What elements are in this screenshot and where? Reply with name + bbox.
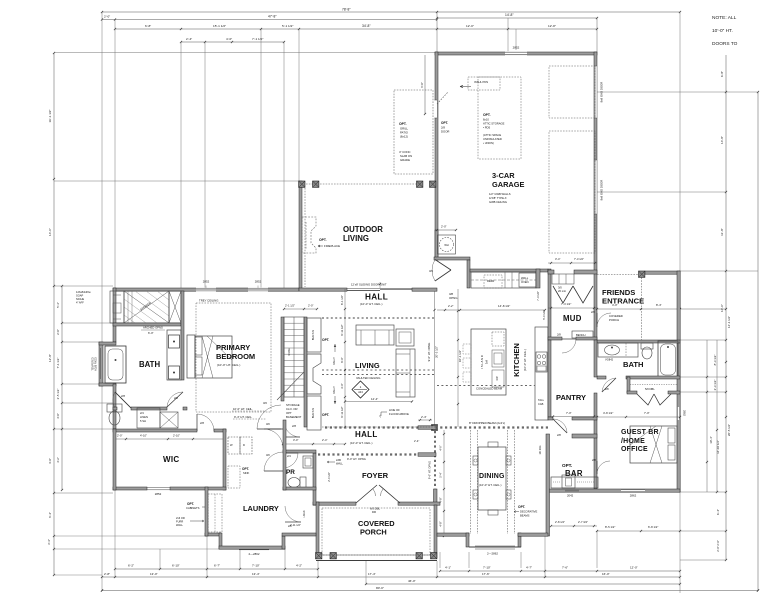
guest bottom dims: [596, 525, 681, 532]
range counter: [535, 327, 548, 420]
svg-text:20 min: 20 min: [558, 289, 567, 293]
pr toilet: [288, 477, 306, 488]
mud dim: [542, 302, 597, 320]
concealed beam: [437, 386, 535, 391]
svg-text:(8x12): (8x12): [400, 135, 408, 139]
svg-text:9’-0” HT. OPNG: 9’-0” HT. OPNG: [427, 343, 431, 362]
right horizontal connectors: [597, 92, 758, 560]
dining south wall w: [437, 533, 469, 536]
svg-text:DECORATIVE: DECORATIVE: [520, 510, 537, 514]
svg-text:8’-3 1/2”: 8’-3 1/2”: [713, 355, 717, 366]
svg-text:10’-0” HT.: 10’-0” HT.: [712, 28, 733, 34]
bath door 2: [167, 392, 183, 407]
svg-text:2’-2”: 2’-2”: [448, 304, 453, 308]
dining bay: [466, 533, 521, 556]
foyer south wall e: [398, 502, 440, 505]
svg-text:CABINETS: CABINETS: [186, 506, 200, 510]
soap niche note: [76, 290, 91, 305]
svg-text:17’-6”: 17’-6”: [482, 572, 490, 576]
garage room label: [489, 171, 525, 204]
svg-text:2’-8”: 2’-8”: [104, 572, 110, 576]
svg-text:4’-8”: 4’-8”: [439, 497, 443, 502]
svg-text:6’-11 1/2”: 6’-11 1/2”: [340, 324, 344, 335]
svg-text:2852: 2852: [203, 280, 210, 284]
svg-text:(10’-0” HT. CEIL.): (10’-0” HT. CEIL.): [217, 363, 240, 367]
wic door: [197, 414, 214, 431]
bottom dim row A right: [439, 566, 681, 573]
fe door to mud: [591, 310, 611, 327]
svg-text:6’-11 1/2”: 6’-11 1/2”: [340, 406, 344, 417]
svg-text:4’-0”: 4’-0”: [439, 445, 443, 450]
svg-text:D: D: [243, 443, 245, 447]
svg-text:9’-0” HT. OPNG: 9’-0” HT. OPNG: [347, 457, 366, 461]
svg-text:LINEN: LINEN: [303, 510, 306, 517]
svg-text:VAULT: VAULT: [333, 357, 336, 365]
svg-text:OPT.: OPT.: [399, 122, 407, 126]
svg-text:GARAGE: GARAGE: [492, 180, 525, 189]
sofa right: [396, 349, 415, 397]
svg-text:9’-0” HT. OPNG: 9’-0” HT. OPNG: [428, 461, 432, 479]
bar hall rot label: [539, 446, 542, 455]
svg-text:78’-8”: 78’-8”: [342, 8, 350, 12]
svg-text:14’-8”: 14’-8”: [720, 136, 724, 144]
svg-text:HALL: HALL: [355, 430, 378, 439]
svg-text:UNINSULATED: UNINSULATED: [483, 137, 502, 141]
living label: [355, 361, 380, 380]
svg-text:5’-1 1/2”: 5’-1 1/2”: [282, 24, 293, 28]
bath2 tub: [658, 341, 678, 378]
svg-text:NOTE: ALL: NOTE: ALL: [712, 15, 737, 21]
svg-text:6’-0”: 6’-0”: [148, 331, 154, 335]
svg-text:PR: PR: [286, 469, 295, 476]
svg-text:2852: 2852: [255, 280, 262, 284]
svg-text:PRIMARY: PRIMARY: [216, 343, 250, 352]
porch post 2: [330, 553, 336, 559]
svg-text:WALL: WALL: [521, 276, 529, 280]
hall corner post: [432, 425, 438, 431]
laundry label: [243, 504, 279, 513]
svg-text:3-CAR: 3-CAR: [492, 171, 515, 180]
outdoor fireplace dashed: [302, 217, 316, 253]
svg-text:2’-4”: 2’-4”: [322, 438, 327, 442]
builtin top: [307, 318, 329, 352]
svg-text:20’-3 1/2”: 20’-3 1/2”: [435, 346, 439, 358]
house top wall west: [113, 288, 299, 291]
svg-text:BUILT-IN: BUILT-IN: [311, 330, 315, 341]
right dim line outer: [706, 91, 759, 592]
svg-text:TEMPERED: TEMPERED: [92, 357, 95, 371]
svg-text:47’-8”: 47’-8”: [268, 15, 276, 19]
svg-text:OPT.: OPT.: [322, 413, 329, 417]
outdoor living left wall: [299, 181, 302, 290]
svg-text:FLOOR ABOVE: FLOOR ABOVE: [389, 412, 409, 416]
svg-text:INSUL PDS: INSUL PDS: [474, 80, 488, 84]
svg-text:8’-5 1/2”: 8’-5 1/2”: [605, 525, 615, 529]
mud top wall: [548, 270, 597, 274]
svg-text:1/0 20G: 1/0 20G: [539, 446, 542, 455]
svg-text:& 5/8” TYPE-X: & 5/8” TYPE-X: [489, 196, 507, 200]
foyer west wall: [313, 453, 316, 505]
porch bottom edge: [316, 555, 437, 561]
svg-text:(ATTIC SPACE: (ATTIC SPACE: [483, 133, 501, 137]
svg-text:OFFICE: OFFICE: [621, 446, 648, 453]
svg-text:17’-4”: 17’-4”: [368, 572, 376, 576]
mud south wall: [548, 337, 597, 340]
bath2 vanity: [598, 343, 638, 362]
svg-text:7’-10”: 7’-10”: [483, 566, 491, 570]
insul pds dashed box: [460, 77, 500, 90]
svg-text:2’-4”: 2’-4”: [421, 415, 427, 419]
garage right wall: [594, 52, 597, 340]
svg-text:7’-3 1/2”: 7’-3 1/2”: [561, 302, 571, 306]
mud bench: [572, 331, 593, 338]
garage entry closet: [429, 257, 470, 288]
bottom dim row C: [365, 579, 681, 585]
svg-text:12’-8”: 12’-8”: [548, 24, 556, 28]
svg-text:OPT.: OPT.: [322, 338, 329, 342]
svg-text:3’-4”: 3’-4”: [47, 539, 51, 545]
svg-text:12’-0”: 12’-0”: [466, 24, 474, 28]
outdoor living post 4: [430, 181, 436, 187]
porch west wall: [316, 502, 319, 558]
svg-text:VAULTED CEILING: VAULTED CEILING: [356, 376, 380, 380]
svg-text:6’-0”: 6’-0”: [340, 357, 344, 362]
svg-text:12’-0”: 12’-0”: [630, 566, 638, 570]
svg-text:4’-1”: 4’-1”: [445, 566, 451, 570]
opng label top: [449, 292, 458, 300]
svg-text:2/4: 2/4: [287, 454, 291, 458]
outdoor living post 2: [313, 181, 319, 187]
svg-text:4’-0”: 4’-0”: [56, 413, 60, 419]
living dashed lines: [322, 318, 434, 375]
pantry label: [556, 393, 586, 402]
tub bay: [99, 342, 126, 386]
grill patio dim: [420, 55, 426, 115]
svg-text:3 RISE: 3 RISE: [288, 348, 291, 356]
friends entrance label: [602, 288, 644, 306]
svg-text:OPT.: OPT.: [483, 113, 491, 117]
left dim line inner small: [56, 285, 63, 491]
svg-text:6’-4”: 6’-4”: [48, 512, 52, 518]
laundry doors: [264, 422, 283, 471]
note text top right: [712, 15, 738, 47]
opt door garage left: [434, 92, 449, 134]
primary toilet: [107, 404, 122, 425]
svg-text:2862: 2862: [683, 410, 687, 416]
svg-text:6’-8”: 6’-8”: [720, 71, 724, 77]
svg-text:OPT.: OPT.: [441, 121, 448, 125]
svg-text:12hx8dx36w: 12hx8dx36w: [76, 290, 91, 294]
garage south wall kitchen: [470, 269, 548, 272]
svg-text:4’-2”: 4’-2”: [56, 457, 60, 463]
svg-text:DINING: DINING: [479, 473, 505, 480]
svg-text:3’-0”: 3’-0”: [340, 383, 344, 388]
bath2 door: [602, 378, 616, 392]
mud cubbies: [552, 274, 574, 284]
svg-text:▪ PDS: ▪ PDS: [483, 126, 490, 130]
svg-text:2’-3 1/2”: 2’-3 1/2”: [713, 380, 717, 391]
wic north wall: [113, 429, 226, 432]
svg-text:2852: 2852: [155, 492, 162, 496]
pr south wall: [283, 487, 316, 490]
svg-text:2’-10”: 2’-10”: [173, 434, 180, 438]
svg-text:6’-7”: 6’-7”: [214, 564, 220, 568]
svg-text:1/2” GWB WALLS: 1/2” GWB WALLS: [489, 192, 511, 196]
svg-text:BATH: BATH: [623, 360, 644, 369]
kitchen top dims: [437, 304, 546, 311]
svg-text:2042: 2042: [567, 494, 574, 498]
porch dining dim line: [439, 430, 446, 537]
porch post 3: [416, 553, 422, 559]
foyer label: [362, 471, 389, 480]
bar hall wall: [572, 434, 597, 438]
svg-text:14’-10 1/2”: 14’-10 1/2”: [716, 440, 720, 454]
svg-text:2’-1 1/2”: 2’-1 1/2”: [285, 304, 295, 308]
dining south wall e: [518, 533, 548, 536]
svg-text:15’-1 1/2”: 15’-1 1/2”: [213, 24, 226, 28]
svg-text:MUD: MUD: [563, 314, 582, 323]
living dim column: [340, 289, 346, 428]
svg-text:2/8: 2/8: [292, 424, 296, 428]
pantry south wall: [548, 417, 597, 420]
svg-text:4’-0”: 4’-0”: [612, 303, 618, 307]
porch dashed inner: [322, 508, 430, 555]
window 2852 a: [196, 280, 216, 292]
svg-text:LAUNDRY: LAUNDRY: [243, 504, 279, 513]
vault marker: [352, 381, 369, 398]
svg-text:2’-11 1/2”: 2’-11 1/2”: [290, 523, 301, 527]
covered porch label: [358, 519, 395, 537]
svg-text:OPT.: OPT.: [518, 505, 525, 509]
svg-text:WALL: WALL: [176, 523, 184, 527]
cabinet x: [160, 412, 178, 428]
porch post 4: [431, 553, 437, 559]
living right dims: [427, 289, 462, 427]
svg-text:10’-0”: 10’-0”: [720, 304, 724, 312]
outdoor living post row dashed: [305, 184, 418, 287]
svg-text:2/8: 2/8: [557, 433, 561, 437]
living fireplace: [307, 354, 321, 394]
opt sink laundry: [228, 466, 249, 488]
svg-text:14’-0”: 14’-0”: [48, 228, 52, 236]
svg-text:4’-0”: 4’-0”: [226, 37, 232, 41]
svg-text:6’-1 1/2”: 6’-1 1/2”: [340, 295, 344, 305]
guest south wall: [548, 489, 680, 492]
stair west wall: [281, 317, 284, 401]
svg-text:13’-4”: 13’-4”: [252, 572, 260, 576]
svg-text:2/8: 2/8: [557, 333, 561, 337]
svg-text:16’-1 1/2”: 16’-1 1/2”: [48, 109, 52, 122]
wic window: [147, 488, 170, 496]
wd boxes: [228, 437, 252, 454]
svg-text:(10’-0” HT. CEIL.): (10’-0” HT. CEIL.): [360, 302, 383, 306]
svg-text:10’-4”: 10’-4”: [709, 436, 713, 443]
svg-text:BATH: BATH: [139, 360, 160, 369]
builtin bottom: [307, 396, 329, 430]
svg-text:A43: A43: [358, 390, 363, 394]
bar dims: [550, 520, 597, 527]
svg-text:(10’-0” HT. CEIL.): (10’-0” HT. CEIL.): [350, 441, 373, 445]
wic room: [163, 455, 179, 464]
svg-text:12’-8”: 12’-8”: [48, 354, 52, 362]
svg-text:2852: 2852: [513, 46, 520, 50]
foyer east wall piece: [428, 431, 438, 505]
svg-text:7’-3 1/2”: 7’-3 1/2”: [574, 257, 584, 261]
laundry south walls: [205, 533, 316, 549]
opt cabinets: [186, 494, 222, 532]
svg-text:CAB: CAB: [538, 402, 544, 406]
svg-text:2’-0” 2’-0”: 2’-0” 2’-0”: [716, 540, 720, 552]
svg-text:LIVING: LIVING: [343, 234, 369, 243]
svg-text:7’-6”: 7’-6”: [562, 566, 568, 570]
left horizontal connectors: [54, 53, 435, 576]
stair top dim: [283, 304, 318, 311]
svg-text:5’-4”: 5’-4”: [56, 302, 60, 308]
svg-text:OPT.: OPT.: [242, 467, 249, 471]
bar window: [565, 490, 579, 497]
pr sink: [303, 456, 313, 468]
hall label top: [360, 293, 388, 307]
hall2 label: [350, 430, 378, 445]
svg-text:PORCH: PORCH: [609, 318, 619, 322]
svg-text:6’-10”: 6’-10”: [172, 564, 180, 568]
svg-text:3’-4”: 3’-4”: [555, 257, 560, 261]
primary bed: [187, 335, 232, 378]
svg-text:BENCH: BENCH: [576, 333, 585, 337]
svg-text:2/8: 2/8: [592, 458, 596, 462]
svg-text:6’-8 1/2”: 6’-8 1/2”: [648, 525, 658, 529]
svg-text:10’-1 1/2”: 10’-1 1/2”: [458, 350, 462, 362]
guest closet: [627, 377, 680, 405]
garage door 1 dashed track: [549, 66, 595, 118]
left dim line 16'-1 1/2 / 14'-0 / 12'-8: [47, 52, 55, 576]
grill patio note: [399, 122, 412, 162]
svg-text:2862: 2862: [630, 494, 637, 498]
bar door: [592, 458, 610, 474]
kitchen label: [512, 343, 527, 377]
dimension row 2'-4 / 4'-0 / 7'-1 1/2: [180, 37, 285, 43]
laundry window: [239, 548, 269, 556]
svg-text:3/0: 3/0: [266, 422, 270, 426]
fireplace label: [318, 238, 340, 248]
svg-text:14’-1 1/2”: 14’-1 1/2”: [727, 316, 731, 328]
furr wall note: [176, 516, 204, 527]
mud door to pantry: [557, 333, 576, 354]
svg-text:2’-4”: 2’-4”: [414, 439, 419, 443]
water heater: [438, 235, 456, 254]
svg-text:WH: WH: [444, 243, 448, 247]
svg-text:2/8: 2/8: [200, 421, 204, 425]
svg-text:7’-1 1/2”: 7’-1 1/2”: [252, 37, 263, 41]
right dim line inner: [709, 55, 731, 561]
svg-text:8’-4”: 8’-4”: [656, 303, 662, 307]
svg-text:ARCHED OPNG: ARCHED OPNG: [143, 326, 163, 330]
dimension row garage 14'-8: [436, 13, 598, 19]
porch east wall: [434, 505, 437, 558]
porch steps door: [285, 506, 306, 528]
wic west lower wall: [205, 487, 208, 536]
svg-text:4’-10”: 4’-10”: [140, 434, 147, 438]
garage right wall door gaps: [594, 66, 596, 214]
svg-text:3/0: 3/0: [266, 453, 270, 457]
mud label: [563, 314, 582, 323]
svg-text:6’-4”: 6’-4”: [716, 509, 720, 515]
dimension row 78'-8" overall top: [101, 8, 681, 14]
guest west wall: [594, 340, 597, 489]
svg-text:7’-1 1/2”: 7’-1 1/2”: [56, 358, 60, 369]
wic south wall: [113, 487, 226, 490]
svg-text:(10’-0” HT. CEIL.): (10’-0” HT. CEIL.): [479, 483, 502, 487]
guest label: [621, 429, 659, 453]
svg-text:5/0 DBL: 5/0 DBL: [645, 387, 655, 391]
svg-text:DOORS TO: DOORS TO: [712, 41, 738, 47]
shower niche: [110, 291, 124, 323]
guest bed: [630, 426, 677, 463]
svg-text:OPT.: OPT.: [187, 502, 194, 506]
laundry east wall: [283, 420, 286, 490]
svg-text:GWB CEILING: GWB CEILING: [489, 200, 507, 204]
svg-text:PANTRY: PANTRY: [556, 393, 586, 402]
svg-text:34’-8”: 34’-8”: [362, 24, 370, 28]
svg-text:LINEN: LINEN: [140, 415, 148, 419]
svg-text:2’-0 1/2”: 2’-0 1/2”: [327, 472, 331, 482]
svg-text:REFR: REFR: [487, 279, 494, 283]
svg-text:FOYER: FOYER: [362, 471, 389, 480]
living kitchen divide line: [433, 291, 438, 428]
svg-text:16’-0”: 16’-0”: [602, 572, 610, 576]
svg-text:BASEMENT: BASEMENT: [286, 415, 302, 419]
wall below shower: [113, 323, 181, 335]
svg-text:7’-0”: 7’-0”: [644, 411, 650, 415]
svg-text:WIC: WIC: [163, 455, 179, 464]
vanity primary: [167, 330, 181, 380]
svg-text:NICHE: NICHE: [76, 297, 84, 301]
pantry door: [553, 419, 567, 437]
svg-text:7’-10”: 7’-10”: [252, 564, 260, 568]
left wall upper: [113, 288, 116, 342]
pr door: [283, 453, 298, 468]
svg-text:20’-5 1/2”: 20’-5 1/2”: [727, 424, 731, 436]
house top wall mid: [299, 288, 347, 291]
svg-text:8x8 OHD DOOR: 8x8 OHD DOOR: [600, 180, 604, 201]
dimension row 47'-8": [101, 15, 438, 21]
svg-text:BEAMS: BEAMS: [520, 514, 530, 518]
left wall mid: [113, 384, 116, 429]
svg-text:ATTIC STORAGE: ATTIC STORAGE: [483, 122, 505, 126]
tempered note: [92, 357, 98, 371]
svg-text:4’-8”: 4’-8”: [439, 521, 443, 526]
svg-text:TREY CEILING: TREY CEILING: [199, 299, 218, 303]
svg-text:5’-0 1/2”: 5’-0 1/2”: [542, 310, 546, 320]
stair door: [284, 421, 300, 437]
guest window east: [677, 407, 686, 420]
bottom dim row B: [102, 572, 681, 578]
bath south wall: [113, 407, 187, 410]
line of floor above: [380, 408, 433, 421]
svg-text:VG842: VG842: [605, 358, 614, 362]
window 2852 b: [248, 280, 268, 292]
garage left wall: [435, 52, 438, 257]
svg-text:OPT.: OPT.: [319, 238, 327, 242]
svg-text:2’-0”: 2’-0”: [56, 329, 60, 335]
guest dims: [596, 411, 681, 418]
outdoor living room label: [343, 225, 383, 243]
shower: [124, 291, 169, 323]
bath2 toilet: [641, 343, 653, 359]
svg-text:BAR: BAR: [565, 469, 583, 478]
svg-text:2’-0”: 2’-0”: [117, 434, 122, 438]
wic dims: [116, 434, 223, 441]
